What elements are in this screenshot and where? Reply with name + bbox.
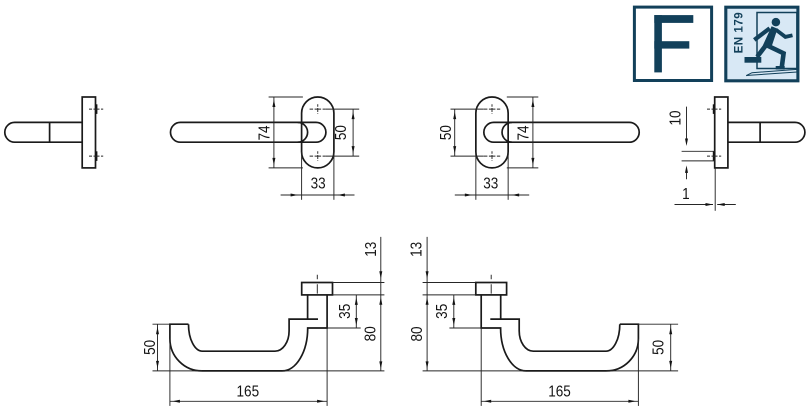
svg-text:33: 33 xyxy=(311,176,326,193)
rosette plate xyxy=(715,97,728,168)
svg-text:EN 179: EN 179 xyxy=(732,12,745,54)
svg-text:1: 1 xyxy=(682,186,690,203)
dim 13/80 line xyxy=(426,237,428,371)
handle bar xyxy=(484,122,639,142)
svg-text:165: 165 xyxy=(236,384,259,401)
screw cross lower xyxy=(310,155,326,157)
dim 50 line xyxy=(157,324,159,371)
svg-text:10: 10 xyxy=(668,110,685,125)
dim 50 line xyxy=(454,109,456,156)
neck inner edge xyxy=(500,295,502,319)
dim 50 line xyxy=(670,324,672,371)
dim 165 ext lines xyxy=(480,328,482,406)
dim 165 line xyxy=(170,400,327,402)
svg-text:50: 50 xyxy=(142,340,159,355)
svg-text:50: 50 xyxy=(651,340,668,355)
svg-text:50: 50 xyxy=(333,125,350,140)
svg-text:165: 165 xyxy=(548,384,571,401)
grip outer outline xyxy=(481,295,638,371)
running man front leg xyxy=(767,45,784,66)
VIEW4 : side view right (rosette edge-on + handle) xyxy=(668,97,805,211)
running man front foot xyxy=(776,66,785,70)
grip inner outline xyxy=(189,319,319,351)
dim 10 line + arrows xyxy=(686,107,688,140)
dim 10 ext lines xyxy=(682,150,715,152)
screw boss lower xyxy=(713,151,715,161)
dim 13/80 line xyxy=(380,237,382,371)
oval rosette xyxy=(302,97,334,168)
dim 165 ext lines xyxy=(169,339,171,406)
running man front arm xyxy=(776,30,793,37)
floor strip xyxy=(746,69,797,75)
running man back arm xyxy=(754,28,769,40)
svg-text:74: 74 xyxy=(516,125,533,140)
boss centerline lower xyxy=(89,155,103,157)
handle bar xyxy=(5,122,82,142)
running man head xyxy=(772,18,781,27)
dim 13/80 ext lines xyxy=(423,282,476,284)
svg-text:50: 50 xyxy=(438,125,455,140)
rosette plate xyxy=(82,97,95,168)
dim 50 ext lines xyxy=(451,108,484,110)
VIEW2 : top view, handle left + oval rosette xyxy=(171,97,360,200)
neck inner edge xyxy=(307,295,309,319)
screw cross upper xyxy=(484,108,500,110)
rosette cap xyxy=(476,283,507,295)
dim 13/80 ext lines xyxy=(333,282,385,284)
screw boss lower xyxy=(96,151,98,161)
neck arc xyxy=(298,122,308,142)
F icon box xyxy=(634,7,711,80)
running man bar foot xyxy=(745,57,762,63)
dim 35 line xyxy=(453,295,455,328)
screw cross lower xyxy=(484,155,500,157)
bar divider xyxy=(759,122,761,142)
svg-text:35: 35 xyxy=(434,304,451,319)
neck arc xyxy=(502,122,512,142)
screw boss upper xyxy=(96,104,98,114)
svg-text:35: 35 xyxy=(337,304,354,319)
F letter mid bar xyxy=(654,41,689,48)
door frame xyxy=(757,13,797,69)
svg-text:80: 80 xyxy=(409,326,426,341)
dim 50 ext lines xyxy=(153,323,170,325)
grip inner outline xyxy=(490,319,620,351)
ICONS xyxy=(634,7,797,81)
boss centerline upper xyxy=(707,108,721,110)
screw cross upper xyxy=(310,108,326,110)
VIEW1 : side view left (handle + rosette edge-on) xyxy=(5,97,103,168)
dim 74 line xyxy=(273,97,275,168)
dim 1 line + arrows xyxy=(675,204,714,206)
cap centerline xyxy=(490,275,492,295)
dim 33 line + arrows xyxy=(455,194,529,196)
dim 74 ext lines xyxy=(507,96,539,98)
dim 74 line xyxy=(532,97,534,168)
F letter top bar xyxy=(654,15,693,23)
BOTTOMLEFT : front view of lever handle xyxy=(142,237,384,406)
dim 33 ext lines xyxy=(475,152,477,200)
grip outer outline xyxy=(170,295,327,371)
dim 33 ext lines xyxy=(301,152,303,200)
svg-text:74: 74 xyxy=(257,125,274,140)
dim 165 line xyxy=(481,400,638,402)
cap centerline xyxy=(316,275,318,295)
dim 50 ext lines xyxy=(326,108,359,110)
dim 35 ext line xyxy=(327,327,361,329)
screw boss upper xyxy=(713,104,715,114)
svg-text:13: 13 xyxy=(409,242,426,257)
handle bar xyxy=(171,122,326,142)
handle bar xyxy=(728,122,805,142)
dim 33 line + arrows xyxy=(281,194,355,196)
rosette cap xyxy=(302,283,333,295)
dim 74 ext lines xyxy=(269,96,303,98)
dim 50 ext lines xyxy=(638,323,678,325)
cover edge line xyxy=(714,168,716,211)
dim 35 line xyxy=(355,295,357,328)
svg-text:13: 13 xyxy=(363,242,380,257)
dim 35 ext line xyxy=(449,327,481,329)
VIEW3 : top view mirrored, oval rosette + handle right xyxy=(438,97,639,200)
F letter stem xyxy=(654,15,662,72)
svg-text:33: 33 xyxy=(483,176,498,193)
boss centerline lower xyxy=(707,155,721,157)
running man torso xyxy=(763,26,778,48)
boss centerline upper xyxy=(89,108,103,110)
svg-text:80: 80 xyxy=(363,326,380,341)
bar divider xyxy=(49,122,51,142)
dim 50 line xyxy=(352,109,354,156)
running man back leg xyxy=(757,46,765,57)
oval rosette xyxy=(476,97,508,168)
EN179 icon box xyxy=(726,7,798,81)
BOTTOMRIGHT : front view of lever handle, mirrored xyxy=(409,237,678,406)
